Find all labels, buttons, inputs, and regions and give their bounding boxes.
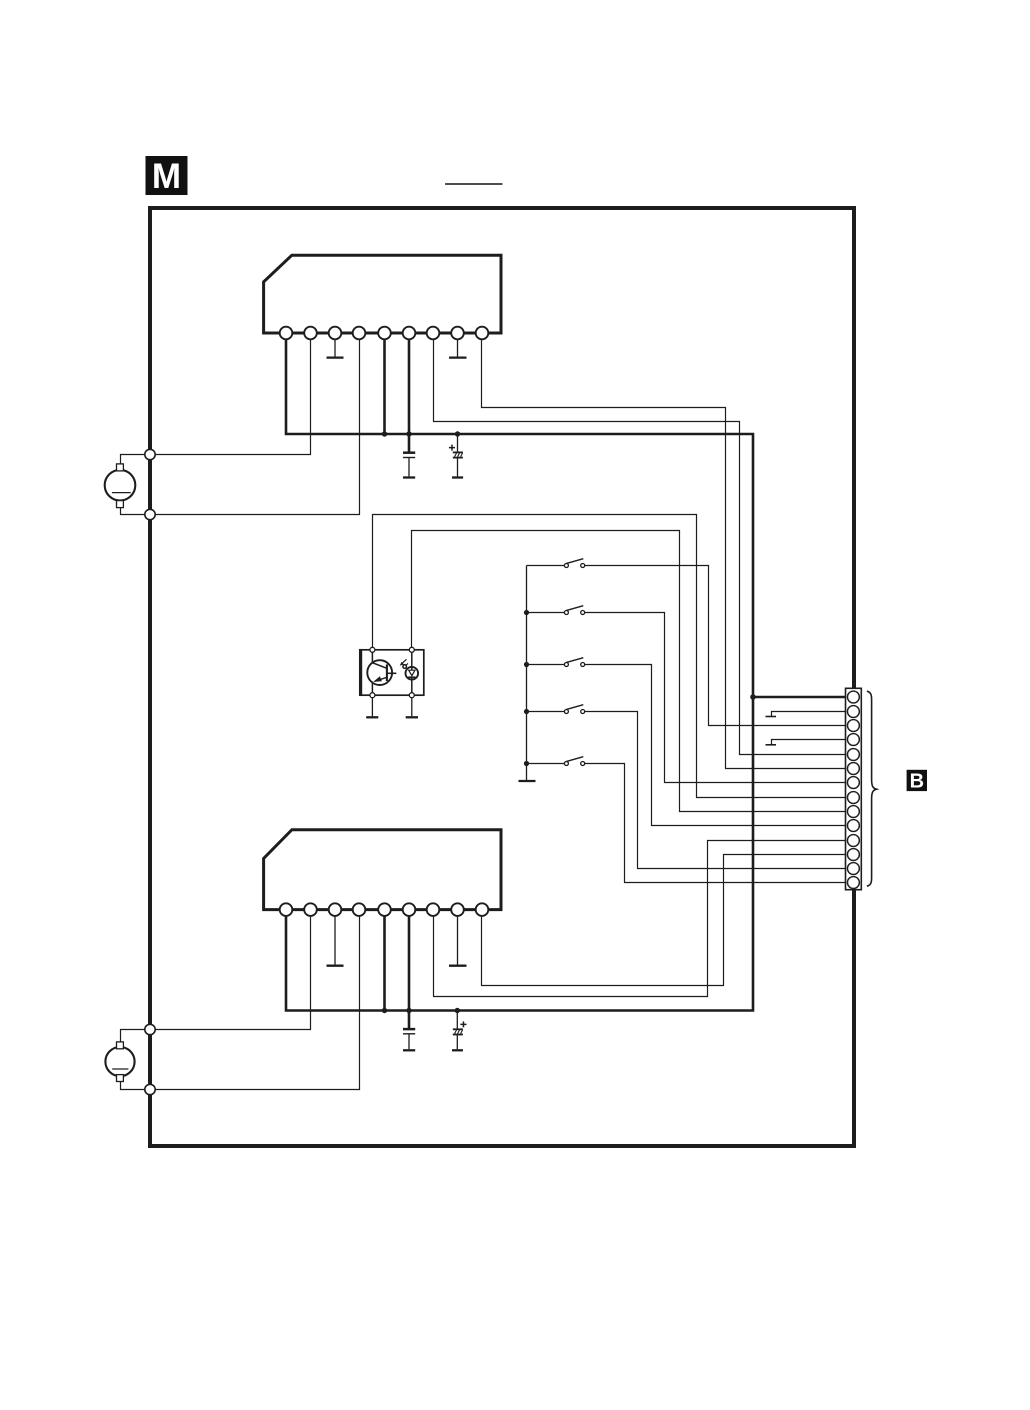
- connector pin 6: [847, 763, 859, 775]
- wire IC1 pin6 to C1 (thick): [408, 339, 411, 453]
- LED D1: [406, 650, 419, 695]
- junction dot rail/pin5 IC2: [382, 1008, 387, 1013]
- motor M1 top terminal: [117, 464, 124, 471]
- label B: [907, 770, 927, 793]
- wire module left terminal to connector pin8: [373, 515, 847, 798]
- capacitor C1: [403, 453, 415, 478]
- motor M2 top terminal: [117, 1042, 124, 1049]
- title rule line: [445, 183, 503, 185]
- IC2 pin 7: [427, 903, 440, 916]
- switch SW1: [527, 559, 847, 726]
- connector pin 5: [847, 749, 859, 761]
- ground stub module right: [406, 698, 418, 717]
- ground stub IC2 pin3: [327, 916, 344, 966]
- IC2 pin 6: [403, 903, 416, 916]
- wire IC1 pin9 to connector pin6: [482, 339, 847, 769]
- wire M2 top terminal to node: [121, 1030, 151, 1043]
- junction dot rail/C2: [455, 431, 460, 436]
- wire IC1 pin2 to motor node: [150, 339, 311, 455]
- light emission arrow: [400, 659, 408, 668]
- connector pin 13: [847, 863, 859, 875]
- ground stub IC1 pin8: [449, 339, 467, 357]
- IC2 pin 9: [476, 903, 489, 916]
- connector pin 4: [847, 734, 859, 746]
- module terminal bottom-right: [409, 693, 414, 698]
- junction dot SW3: [524, 662, 529, 667]
- capacitor C3: [403, 1029, 415, 1050]
- module terminal top-left: [370, 647, 375, 652]
- open stub to connector pin2: [766, 712, 847, 717]
- capacitor C4 (electrolytic): [452, 1011, 467, 1051]
- IC2 pin 1: [280, 903, 293, 916]
- ground stub IC2 pin8: [449, 916, 467, 966]
- switch SW5: [527, 757, 847, 883]
- connector pin 11: [847, 835, 859, 847]
- IC1 pin 9: [476, 327, 489, 340]
- wire M1 bottom terminal to node: [121, 507, 151, 515]
- wire M1 top terminal to node: [121, 455, 151, 465]
- svg-text:M: M: [152, 157, 181, 196]
- wire IC1 pin4 to motor node: [150, 339, 360, 515]
- wire IC2 pin9 to connector pin12: [482, 855, 847, 986]
- connector pin 2: [847, 706, 859, 718]
- junction dot rail/C1: [406, 431, 411, 436]
- IC1 pin 6: [403, 327, 416, 340]
- connector pin 1: [847, 691, 859, 703]
- motor M1: [105, 449, 156, 519]
- IC2 pin 3: [329, 903, 342, 916]
- connector pin 14: [847, 877, 859, 889]
- connector pin 7: [847, 777, 859, 789]
- junction dot SW5: [524, 761, 529, 766]
- motor M2 brush line: [112, 1068, 128, 1070]
- IC1 pin 4: [353, 327, 366, 340]
- switch SW3: [527, 658, 847, 826]
- wire IC1 pin7 to connector pin5: [434, 339, 847, 755]
- motor M2 body: [105, 1047, 134, 1076]
- board outline: [150, 208, 854, 1146]
- wire IC2 pin4 to motor node: [150, 916, 360, 1090]
- junction dot rail/pin5: [382, 431, 387, 436]
- capacitor C2 (electrolytic): [449, 434, 463, 478]
- junction dot SW2: [524, 610, 529, 615]
- wire module right terminal to connector pin9: [412, 531, 847, 812]
- connector pin 12: [847, 849, 859, 861]
- module terminal bottom-left: [370, 693, 375, 698]
- photo-reflector module U1: [360, 647, 424, 697]
- open stub to connector pin4: [766, 740, 847, 745]
- ground switch bus: [519, 780, 536, 782]
- switch common bus: [526, 566, 528, 781]
- motor M1 brush line: [112, 492, 131, 494]
- IC1 pin 5: [378, 327, 391, 340]
- svg-text:B: B: [910, 770, 924, 792]
- motor M2: [105, 1024, 155, 1094]
- wire IC2 pin5 to bottom rail (thick): [383, 916, 386, 1011]
- IC2 body: [264, 830, 501, 910]
- IC1 body: [264, 255, 501, 333]
- node circle M1+ on board edge: [145, 449, 155, 459]
- connector CN-B body: [846, 688, 862, 889]
- node circle M2+ on board edge: [145, 1024, 155, 1034]
- junction dot SW4: [524, 709, 529, 714]
- IC1 pin 7: [427, 327, 440, 340]
- connector pin 9: [847, 806, 859, 818]
- junction dot rail/C3: [406, 1008, 411, 1013]
- wire ground bus to connector pin1 (thick): [753, 696, 846, 699]
- motor M1 body: [105, 470, 136, 501]
- junction dot rail/C4: [455, 1008, 460, 1013]
- IC2 pin 8: [451, 903, 464, 916]
- connector pin 8: [847, 792, 859, 804]
- connector pin 3: [847, 720, 859, 732]
- wire M2 bottom terminal to node: [121, 1081, 151, 1090]
- ground stub IC1 pin3: [327, 339, 344, 357]
- wire IC2 pin2 to motor node: [150, 916, 311, 1030]
- motor M2 bottom terminal: [117, 1075, 124, 1082]
- IC1 pin 2: [304, 327, 317, 340]
- IC1 pin 8: [451, 327, 464, 340]
- ground bus (thick): IC1 pin1, top rail, right drop, bottom rail, IC2 pin1: [286, 339, 753, 1011]
- transistor Q1: [367, 650, 396, 695]
- IC1 pin 3: [329, 327, 342, 340]
- IC2 pin 2: [304, 903, 317, 916]
- wire IC2 pin6 to C3 (thick): [408, 916, 411, 1029]
- IC1 pin 1: [280, 327, 293, 340]
- IC2 pin 5: [378, 903, 391, 916]
- switch SW4: [527, 705, 847, 869]
- IC2 pin 4: [353, 903, 366, 916]
- module terminal top-right: [409, 647, 414, 652]
- ground stub module left: [366, 698, 378, 717]
- section label M: [146, 156, 188, 196]
- switch SW2: [527, 606, 847, 783]
- brace: [867, 691, 877, 886]
- wire IC1 pin5 to top rail (thick): [383, 339, 386, 434]
- motor M1 bottom terminal: [117, 501, 124, 508]
- junction dot bus/connector pin1: [750, 694, 756, 700]
- connector pin 10: [847, 820, 859, 832]
- node circle M1- on board edge: [145, 509, 155, 519]
- wire IC2 pin7 to connector pin11: [434, 841, 847, 997]
- module box: [360, 650, 424, 695]
- node circle M2- on board edge: [145, 1084, 155, 1094]
- module box left thick edge: [359, 650, 362, 695]
